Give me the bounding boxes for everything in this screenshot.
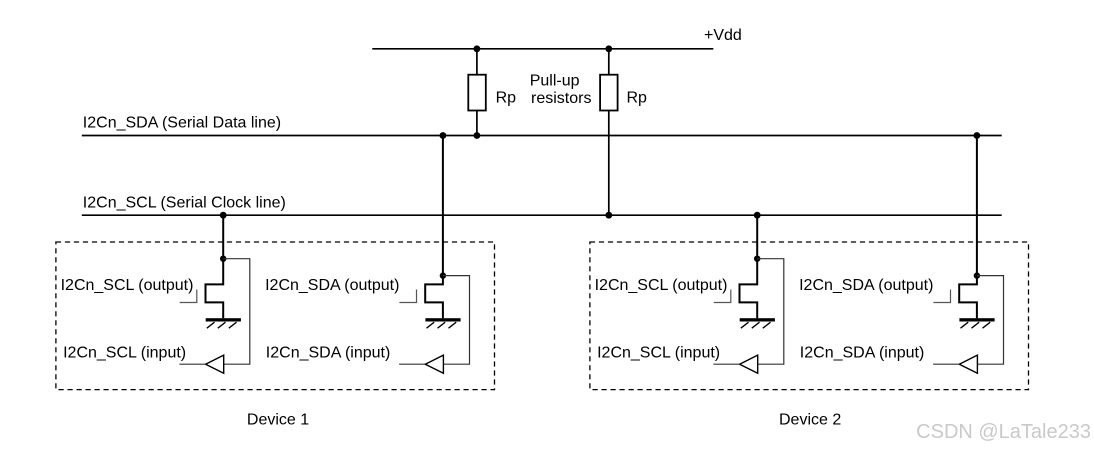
node: device1 SDA drain junction	[440, 272, 446, 278]
svg-text:resistors: resistors	[531, 90, 591, 107]
svg-text:I2Cn_SCL (input): I2Cn_SCL (input)	[63, 344, 186, 361]
svg-text:CSDN @LaTale233: CSDN @LaTale233	[916, 421, 1091, 443]
gate lead of device2 SCL transistor	[714, 290, 731, 303]
buffer: device2 SCL input (triangle)	[740, 355, 758, 373]
transistor: device2 SDA open-drain output	[959, 276, 977, 319]
node: Vdd / Rp1 junction	[474, 45, 481, 52]
wire: device2 SCL feedback to input buffer	[757, 259, 784, 365]
ground (device2 SCL source)	[740, 318, 775, 328]
wire: SCL down to device2 SCL transistor	[756, 215, 758, 259]
gate lead of device2 SDA transistor	[933, 290, 950, 303]
svg-text:I2Cn_SDA (output): I2Cn_SDA (output)	[799, 277, 933, 294]
wire: device2 SCL input stub	[713, 363, 739, 365]
svg-text:I2Cn_SCL (output): I2Cn_SCL (output)	[595, 277, 728, 294]
node: SCL / device2 tap	[754, 212, 761, 219]
buffer: device1 SDA input (triangle)	[425, 355, 443, 373]
svg-text:Device 2: Device 2	[779, 411, 841, 428]
svg-text:+Vdd: +Vdd	[704, 27, 742, 44]
ground (device1 SCL source)	[206, 318, 241, 328]
ground (device2 SDA source)	[959, 318, 994, 328]
node: device2 SCL drain junction	[754, 256, 760, 262]
label: Pull-up resistors	[530, 73, 592, 107]
SDA bus wire	[82, 135, 1002, 137]
gate lead of device1 SCL transistor	[180, 290, 197, 303]
transistor: device2 SCL open-drain output	[740, 259, 758, 319]
svg-text:Device 1: Device 1	[247, 411, 309, 428]
svg-text:I2Cn_SDA (input): I2Cn_SDA (input)	[266, 344, 391, 361]
ground (device1 SDA source)	[425, 318, 460, 328]
node: SCL / Rp2 junction	[605, 212, 612, 219]
node: SDA / device1 tap	[440, 132, 447, 139]
+Vdd supply rail	[372, 48, 713, 50]
svg-text:Rp: Rp	[627, 89, 648, 106]
svg-text:Pull-up: Pull-up	[530, 73, 580, 90]
svg-text:Rp: Rp	[496, 89, 517, 106]
wire: device1 SDA feedback to input buffer	[443, 276, 470, 365]
svg-text:I2Cn_SDA (Serial Data line): I2Cn_SDA (Serial Data line)	[83, 115, 281, 132]
transistor: device1 SCL open-drain output	[206, 259, 224, 319]
svg-text:I2Cn_SCL (output): I2Cn_SCL (output)	[61, 277, 194, 294]
buffer: device1 SCL input (triangle)	[206, 355, 224, 373]
node: Vdd / Rp2 junction	[605, 45, 612, 52]
resistor Rp2 (pull-up on SCL)	[600, 49, 618, 215]
wire: device1 SDA input stub	[399, 363, 425, 365]
wire: device2 SDA feedback to input buffer	[977, 276, 1004, 365]
resistor Rp1 (pull-up on SDA)	[468, 49, 486, 136]
node: SCL / device1 tap	[220, 212, 227, 219]
SCL bus wire	[82, 214, 1002, 216]
wire: device1 SCL input stub	[179, 363, 205, 365]
device 1 dashed enclosure	[56, 242, 495, 390]
svg-text:I2Cn_SDA (output): I2Cn_SDA (output)	[265, 277, 399, 294]
node: device2 SDA drain junction	[974, 272, 980, 278]
wire: device2 SDA input stub	[933, 363, 959, 365]
svg-text:I2Cn_SCL (Serial Clock line): I2Cn_SCL (Serial Clock line)	[83, 194, 286, 211]
node: device1 SCL drain junction	[220, 256, 226, 262]
transistor: device1 SDA open-drain output	[425, 276, 443, 319]
wire: device1 SCL feedback to input buffer	[223, 259, 250, 365]
wire: SDA down to device1 SDA transistor	[442, 136, 444, 276]
buffer: device2 SDA input (triangle)	[959, 355, 977, 373]
wire: SCL down to device1 SCL transistor	[222, 215, 224, 259]
node: SDA / Rp1 junction	[474, 132, 481, 139]
svg-text:I2Cn_SCL (input): I2Cn_SCL (input)	[597, 344, 720, 361]
node: SDA / device2 tap	[974, 132, 981, 139]
wire: SDA down to device2 SDA transistor	[976, 136, 978, 276]
device 2 dashed enclosure	[590, 242, 1029, 390]
svg-text:I2Cn_SDA (input): I2Cn_SDA (input)	[800, 344, 925, 361]
gate lead of device1 SDA transistor	[399, 290, 416, 303]
